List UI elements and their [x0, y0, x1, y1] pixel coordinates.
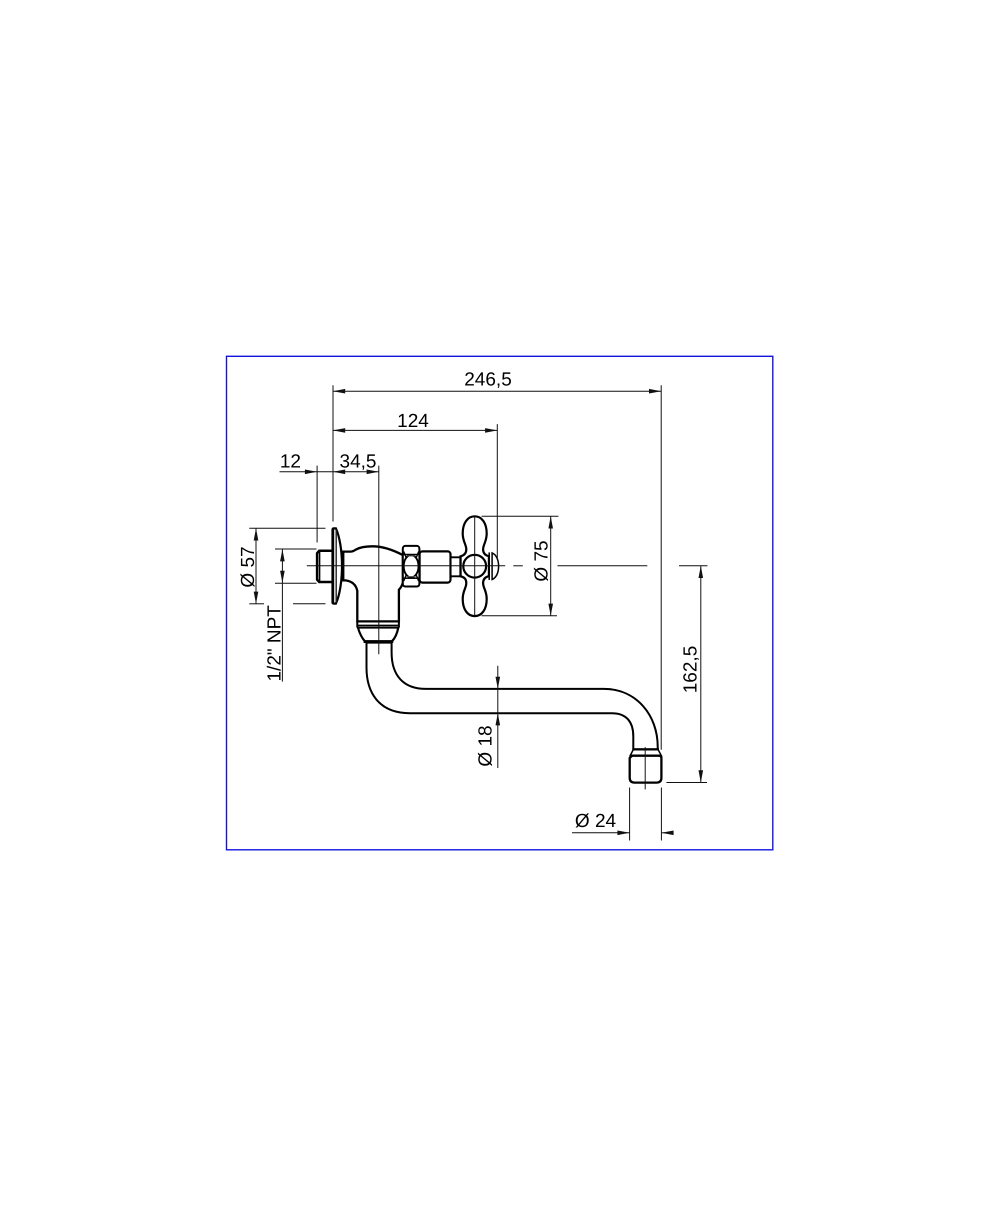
handle cross silhouette — [461, 516, 489, 616]
svg-text:246,5: 246,5 — [464, 370, 512, 391]
ext nipple end — [316, 466, 318, 543]
centerlines — [307, 466, 648, 790]
handle stem — [451, 557, 461, 576]
svg-text:124: 124 — [397, 411, 429, 432]
wall flange — [333, 528, 343, 603]
dimension texts — [238, 370, 702, 833]
dim diam 18 — [497, 666, 499, 714]
svg-text:1/2" NPT: 1/2" NPT — [264, 605, 285, 682]
spout nozzle — [630, 749, 662, 782]
ext wall face — [332, 385, 334, 521]
dim diam 75 — [550, 516, 552, 616]
ext handle end — [496, 424, 498, 559]
handle cap button — [489, 552, 498, 580]
svg-text:Ø 57: Ø 57 — [238, 546, 259, 587]
dim diam 57 — [255, 528, 257, 604]
outlet ring — [357, 621, 399, 627]
packing hex nut — [403, 546, 420, 587]
threaded nipple 1/2 NPT — [317, 551, 333, 582]
svg-text:Ø 75: Ø 75 — [532, 540, 553, 581]
nozzle centerline — [644, 747, 646, 789]
leader 1/2 NPT — [281, 549, 283, 682]
border frame — [227, 356, 773, 850]
svg-text:34,5: 34,5 — [340, 451, 377, 472]
svg-text:Ø 24: Ø 24 — [575, 811, 617, 832]
svg-text:12: 12 — [280, 451, 301, 472]
axis centerline — [307, 565, 505, 567]
svg-text:162,5: 162,5 — [681, 646, 702, 694]
dim 34,5 — [333, 471, 379, 473]
dim 12 — [280, 471, 334, 473]
handle hub — [463, 555, 486, 578]
arrowheads — [254, 389, 703, 835]
ext spout end — [660, 385, 662, 750]
dim diam 24 — [572, 832, 630, 834]
dim 246,5 — [333, 390, 661, 392]
swivel centerline — [378, 466, 380, 655]
svg-text:Ø 18: Ø 18 — [476, 725, 497, 766]
dim 124 — [333, 429, 497, 431]
valve body — [343, 546, 403, 621]
outlet cone — [358, 628, 398, 642]
dim 162,5 — [700, 566, 702, 783]
spout tube — [367, 643, 658, 750]
bonnet sleeve — [420, 551, 451, 582]
handle centerline — [474, 516, 476, 616]
dimension lines & extension lines — [249, 385, 707, 840]
